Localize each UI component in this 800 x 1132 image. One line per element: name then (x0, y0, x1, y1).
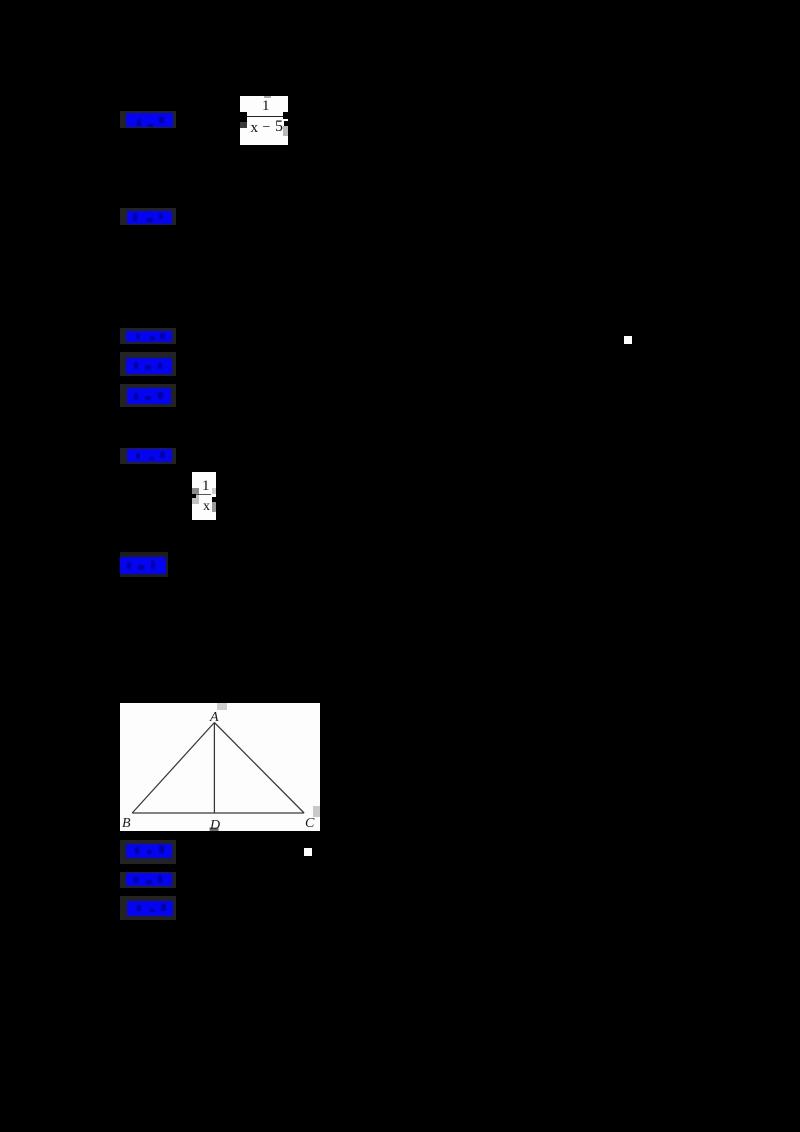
gray tab top (264, 96, 272, 98)
denominator x - 5 (251, 124, 259, 132)
label 5 (120, 384, 176, 407)
right gray artifact (283, 126, 288, 136)
gray artifact above A (217, 703, 227, 710)
black tick protruding left (192, 494, 196, 498)
fraction box A : 1/(x-5) (240, 96, 288, 145)
label 9 (120, 872, 176, 888)
white square dot 1 (624, 336, 632, 344)
svg-text:C: C (305, 816, 315, 831)
fraction bar (196, 494, 211, 495)
numerator 1 (262, 100, 270, 113)
triangle figure box (120, 703, 320, 831)
left black artifact (240, 112, 247, 122)
svg-text:A: A (209, 710, 219, 725)
fraction box B : 1/x, (192, 472, 216, 520)
gray blob right of 1 (212, 488, 217, 494)
fraction bar (243, 116, 285, 118)
label 3 (120, 328, 176, 344)
white square dot 2 (304, 848, 312, 856)
comma artifact right (212, 497, 216, 502)
label 6 (120, 448, 176, 464)
label 8 (120, 840, 176, 864)
gray blob left mid (192, 488, 199, 494)
right black artifact (283, 112, 288, 119)
label 2 (120, 208, 176, 225)
label 10 (120, 896, 176, 920)
svg-text:D: D (209, 818, 220, 831)
gray artifact right edge near C (313, 806, 320, 817)
cevian AD (213, 723, 215, 814)
triangle base BC (132, 812, 304, 814)
gray artifact below D (210, 828, 219, 832)
triangle side AC (214, 723, 304, 814)
numerator 1 (202, 480, 210, 492)
svg-text:B: B (122, 816, 131, 831)
label 4 (120, 352, 176, 376)
denominator x (203, 501, 210, 513)
label 7 (italic, lighter bg) (120, 552, 168, 577)
triangle side AB (132, 723, 214, 814)
label 1 (blue tag on gray) (120, 111, 176, 128)
